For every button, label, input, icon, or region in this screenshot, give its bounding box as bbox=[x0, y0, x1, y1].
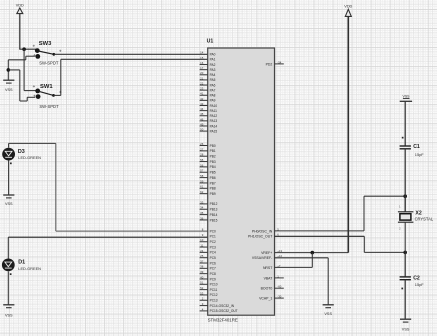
pin PB3 (55) bbox=[200, 158, 216, 164]
svg-text:PC9: PC9 bbox=[210, 277, 216, 281]
junction VDD branch bbox=[22, 47, 26, 51]
svg-text:PB1: PB1 bbox=[210, 149, 216, 153]
svg-text:D1: D1 bbox=[18, 260, 25, 266]
pin PA1 (15) bbox=[200, 56, 215, 62]
wire VREF+ to VDD rail bbox=[275, 252, 349, 254]
pin PC5 (25) bbox=[200, 254, 216, 260]
wire PH0/OSC_IN to crystal top bbox=[275, 196, 406, 231]
svg-text:PC6: PC6 bbox=[210, 261, 216, 265]
svg-text:VREF+: VREF+ bbox=[261, 251, 272, 255]
pin NRST (+7) bbox=[263, 264, 281, 270]
svg-text:43: 43 bbox=[200, 102, 204, 106]
pin PB14 (35) bbox=[200, 211, 218, 217]
pin PA6 (22) bbox=[200, 81, 216, 87]
svg-text:PA4: PA4 bbox=[210, 73, 216, 77]
svg-text:15: 15 bbox=[200, 56, 204, 60]
pin PB9 (62) bbox=[200, 190, 216, 196]
pin PA2 (16) bbox=[200, 61, 216, 67]
svg-text:PC10: PC10 bbox=[210, 283, 218, 287]
svg-text:61: 61 bbox=[200, 185, 204, 189]
svg-text:PB3: PB3 bbox=[210, 160, 216, 164]
svg-text:24: 24 bbox=[200, 249, 204, 253]
svg-text:21: 21 bbox=[200, 76, 204, 80]
svg-text:-30: -30 bbox=[277, 295, 281, 299]
wire NRST pull-up branch bbox=[275, 253, 313, 268]
svg-text:SW-SPDT: SW-SPDT bbox=[39, 104, 59, 109]
svg-text:PC0: PC0 bbox=[210, 229, 216, 233]
pin PB7 (59) bbox=[200, 179, 216, 185]
svg-text:15pF: 15pF bbox=[415, 152, 424, 157]
pin PC10 (51) bbox=[200, 281, 218, 287]
svg-text:44: 44 bbox=[200, 107, 204, 111]
pin PC4 (24) bbox=[200, 249, 216, 255]
svg-text:59: 59 bbox=[200, 179, 204, 183]
wire D3 cathode to ground bbox=[8, 161, 10, 196]
wire crystal to bottom node bbox=[404, 196, 406, 252]
pin VCAP_1 (-30) bbox=[259, 295, 284, 301]
svg-text:PA1: PA1 bbox=[210, 58, 216, 62]
capacitor C1 (15pF) bbox=[400, 144, 425, 157]
pin PC1 (9) bbox=[202, 233, 216, 239]
wire VDD branch down to SW1 bbox=[24, 49, 36, 90]
svg-text:20: 20 bbox=[200, 71, 204, 75]
svg-text:PB2: PB2 bbox=[210, 155, 216, 159]
svg-text:C1: C1 bbox=[413, 144, 420, 150]
svg-text:SW-SPDT: SW-SPDT bbox=[39, 60, 59, 65]
wire SW3 pole to PA0 bbox=[54, 53, 208, 55]
svg-text:PA6: PA6 bbox=[210, 83, 216, 87]
pin VBAT (1) bbox=[264, 274, 284, 280]
svg-text:VSS: VSS bbox=[402, 328, 410, 332]
svg-text:VBAT: VBAT bbox=[264, 276, 274, 280]
pin PA11 (44) bbox=[200, 107, 218, 113]
svg-text:-60: -60 bbox=[277, 285, 281, 289]
svg-text:46: 46 bbox=[200, 117, 204, 121]
svg-text:X2: X2 bbox=[415, 210, 421, 216]
pin PA8 (41) bbox=[200, 92, 216, 98]
svg-text:VCAP_1: VCAP_1 bbox=[259, 297, 272, 301]
pin PB5 (57) bbox=[200, 169, 216, 175]
pin PC3 (11) bbox=[200, 243, 216, 249]
svg-text:LED-GREEN: LED-GREEN bbox=[18, 155, 41, 160]
node marker near C1 bbox=[402, 137, 404, 139]
svg-text:PA15: PA15 bbox=[210, 129, 218, 133]
svg-text:PC2: PC2 bbox=[210, 240, 216, 244]
svg-text:PC12: PC12 bbox=[210, 293, 218, 297]
ground VSS (bottom right) bbox=[400, 319, 411, 331]
pin PB15 (36) bbox=[200, 216, 218, 222]
svg-text:PB7: PB7 bbox=[210, 181, 216, 185]
svg-text:49: 49 bbox=[200, 122, 204, 126]
pin VREF+ (+13) bbox=[261, 249, 282, 255]
svg-text:VSS: VSS bbox=[324, 312, 332, 316]
svg-text:PC8: PC8 bbox=[210, 272, 216, 276]
svg-text:23: 23 bbox=[200, 87, 204, 91]
LED D1 (LED-GREEN) bbox=[2, 259, 41, 276]
svg-text:PA8: PA8 bbox=[210, 94, 216, 98]
svg-text:40: 40 bbox=[200, 275, 204, 279]
wire VSS to SW3 lower contact bbox=[8, 56, 35, 80]
pin PB0 (26) bbox=[200, 142, 216, 148]
wire VDD down to switches bbox=[19, 14, 36, 50]
svg-text:25: 25 bbox=[200, 254, 204, 258]
wire C1 bottom to crystal top node bbox=[404, 149, 406, 212]
svg-text:PB13: PB13 bbox=[210, 208, 218, 212]
pin PC12 (53) bbox=[200, 291, 218, 297]
pin VSSA/VREF- (+12) bbox=[252, 254, 283, 260]
LED D3 (LED-GREEN) bbox=[2, 148, 41, 164]
svg-text:SW1: SW1 bbox=[40, 84, 53, 90]
pin PA7 (23) bbox=[200, 87, 216, 93]
svg-text:50: 50 bbox=[200, 128, 204, 132]
pin PB4 (56) bbox=[200, 163, 216, 169]
svg-text:PA10: PA10 bbox=[210, 104, 218, 108]
svg-text:CRYSTAL: CRYSTAL bbox=[415, 217, 434, 222]
svg-text:PC14-OSC32_IN: PC14-OSC32_IN bbox=[210, 304, 235, 308]
pin PA13 (46) bbox=[200, 117, 218, 123]
svg-text:PB12: PB12 bbox=[210, 202, 218, 206]
svg-text:PC3: PC3 bbox=[210, 245, 216, 249]
svg-text:62: 62 bbox=[200, 190, 204, 194]
junction crystal bottom node bbox=[403, 251, 407, 255]
svg-text:PB4: PB4 bbox=[210, 165, 216, 169]
switch SW3 (SW-SPDT) bbox=[33, 41, 62, 65]
wire C2 to ground bbox=[404, 280, 406, 320]
pin PC0 (8) bbox=[202, 228, 216, 234]
svg-text:PB5: PB5 bbox=[210, 171, 216, 175]
wire VSS to C1 top bbox=[404, 101, 406, 146]
node marker near C2 bbox=[401, 288, 403, 290]
pin PA4 (20) bbox=[200, 71, 216, 77]
pin PC13 (2) bbox=[200, 297, 218, 303]
crystal X2 bbox=[398, 204, 434, 230]
op-amp/IC U1 STM32F401RE body bbox=[207, 39, 275, 323]
svg-text:PC7: PC7 bbox=[210, 267, 216, 271]
svg-text:35: 35 bbox=[200, 211, 204, 215]
svg-text:PA9: PA9 bbox=[210, 99, 216, 103]
svg-text:PA3: PA3 bbox=[210, 68, 216, 72]
svg-text:BOOT0: BOOT0 bbox=[261, 287, 273, 291]
wire SW1 pole up to PA1 bbox=[54, 59, 208, 95]
svg-text:PC11: PC11 bbox=[210, 288, 218, 292]
pin PC6 (37) bbox=[200, 259, 216, 265]
pin PA9 (42) bbox=[200, 97, 216, 103]
svg-text:56: 56 bbox=[200, 163, 204, 167]
pin PB6 (58) bbox=[200, 174, 216, 180]
svg-text:NRST: NRST bbox=[263, 266, 273, 270]
svg-text:38: 38 bbox=[200, 265, 204, 269]
svg-text:11: 11 bbox=[200, 243, 203, 247]
svg-text:22: 22 bbox=[200, 81, 204, 85]
wire PH1/OSC_OUT to crystal bottom bbox=[275, 236, 406, 252]
junction VREF+/NRST branch bbox=[311, 251, 315, 255]
wire D1 cathode to ground bbox=[7, 271, 9, 305]
pin BOOT0 (-60) bbox=[261, 285, 284, 291]
pin PC2 (10) bbox=[200, 238, 216, 244]
svg-text:41: 41 bbox=[200, 92, 204, 96]
svg-text:VSSA/VREF-: VSSA/VREF- bbox=[252, 256, 272, 260]
svg-text:VSS: VSS bbox=[5, 314, 13, 318]
switch SW1 (SW-SPDT) bbox=[33, 84, 62, 109]
pin PA5 (21) bbox=[200, 76, 216, 82]
svg-text:PB0: PB0 bbox=[210, 144, 216, 148]
svg-text:36: 36 bbox=[200, 216, 204, 220]
svg-text:PH1/OSC_OUT: PH1/OSC_OUT bbox=[248, 235, 273, 239]
pin PC14-OSC32_IN (3) bbox=[200, 302, 235, 308]
pin PD2 (-54) bbox=[266, 60, 284, 66]
pin PC7 (38) bbox=[200, 265, 216, 271]
ground VSS (upper left) bbox=[3, 80, 14, 92]
pin PB1 (27) bbox=[200, 147, 216, 153]
junction crystal top node bbox=[403, 194, 407, 198]
svg-text:PC5: PC5 bbox=[210, 256, 216, 260]
svg-text:PA12: PA12 bbox=[210, 114, 218, 118]
svg-text:VSS: VSS bbox=[402, 94, 410, 98]
svg-text:45: 45 bbox=[200, 112, 204, 116]
svg-text:PA13: PA13 bbox=[210, 119, 218, 123]
svg-text:VSS: VSS bbox=[5, 88, 13, 92]
pin PA12 (45) bbox=[200, 112, 218, 118]
svg-text:PB15: PB15 bbox=[210, 218, 218, 222]
svg-text:PH0/OSC_IN: PH0/OSC_IN bbox=[252, 229, 273, 233]
svg-text:SW3: SW3 bbox=[39, 41, 52, 47]
svg-text:39: 39 bbox=[200, 270, 204, 274]
pin PB8 (61) bbox=[200, 185, 216, 191]
svg-text:PC1: PC1 bbox=[210, 235, 216, 239]
pin PC11 (52) bbox=[200, 286, 218, 292]
svg-text:C2: C2 bbox=[413, 275, 420, 281]
svg-text:10: 10 bbox=[200, 238, 204, 242]
svg-text:VDD: VDD bbox=[344, 4, 352, 8]
wire VDD rail down to VREF+ bbox=[347, 16, 349, 252]
svg-text:PA0: PA0 bbox=[210, 53, 216, 57]
svg-text:17: 17 bbox=[200, 66, 204, 70]
svg-text:57: 57 bbox=[200, 169, 204, 173]
svg-text:52: 52 bbox=[200, 286, 204, 290]
svg-text:28: 28 bbox=[200, 153, 204, 157]
power symbol VSS (inverted, top of crystal column) bbox=[400, 94, 412, 101]
wire VSSA/VREF- to ground bbox=[275, 258, 329, 305]
svg-text:34: 34 bbox=[200, 206, 204, 210]
wire D3 anode to PC0 bbox=[9, 143, 208, 231]
pin PB12 (33) bbox=[200, 200, 218, 206]
junction VSS branch bbox=[7, 68, 11, 72]
pin PC9 (40) bbox=[200, 275, 216, 281]
svg-text:14: 14 bbox=[200, 51, 204, 55]
pin PH0/OSC_IN (5) bbox=[252, 227, 279, 233]
power symbol VDD (top left) bbox=[16, 3, 24, 13]
ground VSS (below D3) bbox=[3, 195, 14, 206]
svg-text:16: 16 bbox=[200, 61, 204, 65]
svg-text:58: 58 bbox=[200, 174, 204, 178]
pin PA3 (17) bbox=[200, 66, 216, 72]
svg-text:PC15-OSC32_OUT: PC15-OSC32_OUT bbox=[210, 309, 238, 313]
svg-text:D3: D3 bbox=[18, 149, 25, 155]
svg-text:55: 55 bbox=[200, 158, 204, 162]
svg-text:15pF: 15pF bbox=[415, 282, 424, 287]
svg-text:PB6: PB6 bbox=[210, 176, 216, 180]
svg-text:VSS: VSS bbox=[5, 202, 13, 206]
svg-text:PA7: PA7 bbox=[210, 88, 216, 92]
power symbol VDD (top right) bbox=[344, 4, 352, 16]
wire D1 anode to PC1 bbox=[8, 237, 207, 258]
svg-text:PA5: PA5 bbox=[210, 78, 216, 82]
pin PA14 (49) bbox=[200, 122, 218, 128]
pin PH1/OSC_OUT (6) bbox=[248, 233, 279, 239]
wire VSS branch to SW1 lower contact bbox=[8, 70, 35, 101]
svg-text:33: 33 bbox=[200, 200, 204, 204]
pin PB2 (28) bbox=[200, 153, 216, 159]
svg-text:PA2: PA2 bbox=[210, 63, 216, 67]
svg-text:PC13: PC13 bbox=[210, 299, 218, 303]
svg-text:26: 26 bbox=[200, 142, 204, 146]
svg-text:PB8: PB8 bbox=[210, 187, 216, 191]
svg-text:-54: -54 bbox=[277, 60, 281, 64]
svg-text:PA11: PA11 bbox=[210, 109, 218, 113]
svg-text:27: 27 bbox=[200, 147, 204, 151]
svg-text:PC4: PC4 bbox=[210, 251, 216, 255]
wire bottom node to C2 bbox=[404, 252, 406, 277]
pin PA10 (43) bbox=[200, 102, 218, 108]
pin PC8 (39) bbox=[200, 270, 216, 276]
svg-text:51: 51 bbox=[200, 281, 204, 285]
svg-text:LED-GREEN: LED-GREEN bbox=[18, 266, 41, 271]
svg-text:37: 37 bbox=[200, 259, 204, 263]
capacitor C2 (15pF) bbox=[400, 275, 425, 287]
svg-text:PD2: PD2 bbox=[266, 62, 273, 66]
pin PA0 (14) bbox=[200, 51, 215, 57]
pin PB13 (34) bbox=[200, 206, 218, 212]
svg-text:VDD: VDD bbox=[16, 3, 24, 7]
svg-text:PB14: PB14 bbox=[210, 213, 218, 217]
svg-text:42: 42 bbox=[200, 97, 204, 101]
svg-text:PB9: PB9 bbox=[210, 192, 216, 196]
svg-text:STM32F401RE: STM32F401RE bbox=[208, 317, 238, 322]
ground VSS (below VSSA) bbox=[323, 305, 334, 316]
pin PA15 (50) bbox=[200, 128, 218, 134]
svg-text:PA14: PA14 bbox=[210, 124, 218, 128]
svg-text:53: 53 bbox=[200, 291, 204, 295]
pin PC15-OSC32_OUT (4) bbox=[200, 307, 238, 313]
ground VSS (below D1) bbox=[3, 305, 14, 318]
svg-text:U1: U1 bbox=[207, 39, 214, 45]
